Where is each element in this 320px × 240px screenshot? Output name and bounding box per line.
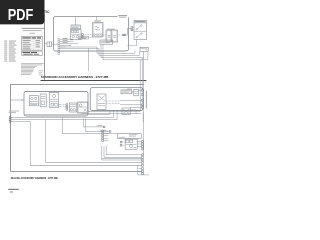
connector SQ [66, 104, 68, 106]
connector R-left [131, 27, 133, 29]
node wire labels [39, 69, 43, 72]
wire pin row4 [60, 44, 70, 46]
PDF badge [0, 0, 45, 24]
node label C [94, 19, 101, 22]
module RE [78, 102, 89, 113]
wire C3 right [137, 141, 141, 143]
connector left pins [9, 117, 11, 119]
wire TC left [45, 43, 48, 45]
deluxe outer border [11, 85, 144, 172]
wire right long [143, 58, 145, 155]
switch R [134, 20, 146, 39]
relay B [71, 30, 82, 40]
wire busB [11, 111, 114, 118]
node label LB4 [121, 90, 132, 94]
fuse X1 [97, 94, 106, 110]
wire pin row1 [60, 38, 74, 40]
connector MP pins [102, 130, 109, 141]
connector PH1 pins [58, 38, 60, 54]
wire X1 right [106, 100, 120, 102]
wire bus1 [60, 46, 97, 48]
wire C up [96, 16, 98, 20]
connector RPN pins [142, 141, 144, 175]
wire R down [127, 40, 136, 46]
connector CX [122, 108, 130, 115]
wire hook [138, 165, 149, 175]
wire busR4 [30, 164, 141, 166]
node P1 label [118, 14, 129, 18]
wire pins left [139, 89, 142, 91]
vertical text 2 [143, 112, 144, 122]
wire dropL1 [84, 119, 105, 127]
svg-text:TIC: TIC [44, 10, 50, 14]
wire pin stub1 [139, 168, 142, 170]
connector TC [47, 42, 52, 47]
relay RA [29, 96, 38, 106]
wire drop1 [97, 47, 135, 53]
wire upper band [88, 110, 140, 112]
footer page [10, 192, 13, 193]
wire busR6 [102, 158, 142, 160]
breaker C [93, 23, 104, 38]
node heading line1 [22, 28, 45, 29]
table T2 [22, 51, 43, 55]
connector RP pins [142, 89, 144, 91]
wire left border top section [44, 14, 46, 81]
wire pin row2 [60, 40, 74, 42]
wire stub B down [88, 48, 90, 71]
relay C3 [125, 139, 137, 149]
wire CX right [130, 110, 136, 114]
relay RD [70, 103, 77, 112]
wire W2 [46, 119, 142, 162]
wire busR1 [106, 146, 141, 155]
node heading line2 [23, 29, 42, 32]
node label LB2 [100, 40, 113, 44]
module RC [50, 92, 59, 107]
harness panel RP [90, 88, 143, 111]
vertical text [146, 91, 147, 109]
wire divider [41, 80, 147, 82]
wire LB4-X2 [132, 91, 134, 93]
svg-text:STANDARD ACCESSORY HARNESS - 9: STANDARD ACCESSORY HARNESS - 97Z7-MB [41, 75, 109, 79]
wire busA [24, 111, 110, 115]
comp X2 [134, 89, 139, 96]
wire D-R [118, 34, 123, 36]
wire bottom border [11, 171, 142, 173]
svg-text:PDF: PDF [8, 7, 34, 24]
footer printed [8, 189, 19, 190]
wire W3 [63, 117, 118, 133]
module RB [40, 94, 46, 107]
harness panel LP [24, 92, 88, 117]
wire busR2 [104, 146, 141, 158]
wire busC [11, 111, 117, 120]
wire busR5 [46, 161, 142, 163]
parts list [4, 41, 16, 62]
node label LB3 [118, 134, 142, 139]
wire busD [11, 120, 30, 122]
svg-text:DELUXE ACCESSORY HARNESS - 97Z: DELUXE ACCESSORY HARNESS - 97Z7-MB [11, 176, 58, 180]
node label LB5 [78, 36, 88, 39]
wire W1 [30, 121, 141, 165]
wire bus2 [60, 47, 99, 49]
node heading line3 [29, 32, 35, 35]
wire bus3 [101, 44, 144, 57]
wire bus4 [103, 44, 148, 60]
wire RC-RD [59, 104, 66, 106]
wire C-D [103, 34, 106, 36]
table T1 [22, 36, 43, 50]
wire pin row3 [60, 42, 78, 44]
wire busR3 [102, 146, 142, 160]
note paragraph [21, 63, 44, 75]
node label LB1 [71, 25, 81, 29]
wire right cross2 [141, 58, 143, 90]
wire B up [75, 16, 77, 25]
wire drop2 [99, 48, 139, 55]
note NT [9, 110, 19, 113]
connector B-C [82, 34, 84, 36]
junction box SB [140, 47, 148, 51]
wire pin row5 [60, 46, 66, 48]
wire right cross1 [139, 60, 141, 112]
wire dropL2 [85, 119, 110, 131]
harness panel P1 [54, 16, 129, 51]
connector pair D [106, 29, 118, 42]
wire TC right [52, 43, 59, 45]
wire LP entry [10, 99, 24, 101]
connector C3-left [120, 141, 122, 143]
